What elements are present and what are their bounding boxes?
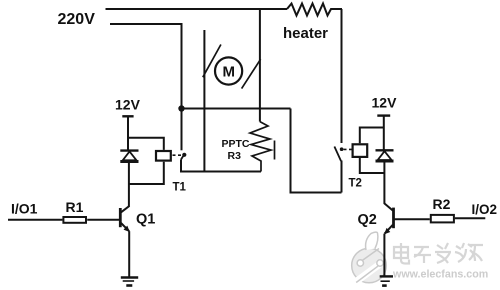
wire bottom of PPTC/motor to T1 switch [181,160,261,172]
wire Q1 emitter down [128,231,130,276]
transistor Q2 collector diagonal [384,203,393,211]
wire motor branch left vertical [203,30,205,172]
transistor Q1 collector diagonal [121,206,130,213]
relay coil T2 box [353,144,368,157]
svg-text:T1: T1 [173,182,187,194]
wire 12V right down to diode [383,116,385,150]
wire 220V line 2 with drop to node [110,24,182,109]
wire diode to collector junction [128,162,130,207]
resistor R1 box [63,217,86,223]
wire coil T2 bottom link [360,157,384,173]
watermark logo elecfans [352,232,387,283]
node junction dot [178,105,184,111]
motor M1 circle [215,57,242,84]
transistor Q1 emitter arrow [124,226,130,232]
svg-text:PPTC: PPTC [222,138,250,150]
transistor Q1 emitter diagonal [121,223,129,231]
dashed link T1 [173,154,182,156]
switch mark slash 1 [203,45,221,78]
wire I/O1 input [8,219,62,221]
svg-text:www.elecfans.com: www.elecfans.com [392,269,488,281]
switch T1 contact dot [182,153,186,157]
relay coil T1 box [156,151,171,161]
transistor Q2 base bar [392,208,395,229]
diode D1 top bar [120,149,138,151]
wire T2 switch bottom [341,161,343,193]
svg-text:Q1: Q1 [136,212,155,228]
wire PPTC branch vertical from top line [259,9,261,122]
wire heater right drop to switch T2 top [341,9,343,143]
heater resistor [287,4,342,16]
svg-text:T2: T2 [349,178,362,190]
wire diode D2 down to Q2 collector [383,161,385,203]
svg-text:R1: R1 [66,199,84,215]
transistor Q2 emitter diagonal [385,225,393,234]
svg-text:heater: heater [283,25,328,42]
12V right terminal bar [377,114,390,116]
diode D2 bottom bar [376,160,394,163]
diode D2 triangle [378,151,392,160]
switch T1 upper lead [181,109,183,151]
diode D1 bottom bar [120,160,138,163]
dashed link T2 [344,148,352,150]
svg-text:12V: 12V [115,97,141,113]
PPTC right tick [274,141,276,160]
wire 12V to coil T1 top [128,138,164,150]
12V left terminal bar [122,115,133,117]
switch mark slash 2 [242,59,261,88]
svg-text:Q2: Q2 [358,212,377,228]
svg-text:R3: R3 [228,150,242,162]
wire coil T1 bottom to junction [129,162,164,184]
diode D2 top bar [376,149,394,151]
switch T2 blade [334,147,341,162]
transistor Q2 emitter arrow [384,228,390,235]
wire 220V top line 1 [106,8,288,10]
diode D1 triangle [123,152,137,161]
svg-text:R2: R2 [433,196,451,212]
svg-text:M: M [223,64,236,81]
wire R1 to Q1 base [87,219,119,221]
resistor PPTC R3 zigzag [250,122,271,172]
logo diagonals [362,249,380,262]
wire node drop right and bottom to T2 [291,109,342,193]
svg-text:220V: 220V [58,11,96,28]
watermark CJK text 电子发烧友 (approximated strokes) [394,243,483,264]
ground GND1 [121,278,138,286]
svg-text:I/O2: I/O2 [472,202,498,217]
svg-text:I/O1: I/O1 [11,201,38,217]
wire 12V left down to diode [127,116,129,150]
wire R2 to I/O2 [455,217,486,219]
wire node horizontal line [182,108,291,110]
svg-text:12V: 12V [372,95,398,111]
transistor Q1 base bar [119,208,122,227]
switch T1 blade [181,154,185,160]
wire Q2 emitter down [383,234,385,276]
switch T2 pivot dot [340,147,344,151]
wire Q2 base to R2 [395,218,430,220]
wire 12V to coil T2 top [360,128,384,144]
ground GND2 [380,276,393,285]
resistor R2 box [431,215,454,223]
